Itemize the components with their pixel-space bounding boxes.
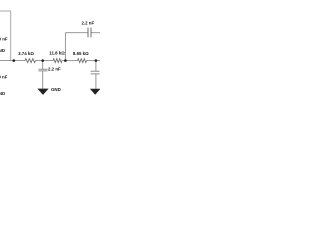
svg-text:0 nF: 0 nF xyxy=(0,75,8,80)
svg-text:ND: ND xyxy=(0,48,5,53)
svg-text:8.65 kΩ: 8.65 kΩ xyxy=(73,51,89,56)
svg-text:2.2 nF: 2.2 nF xyxy=(48,67,61,72)
svg-text:3.74 kΩ: 3.74 kΩ xyxy=(18,51,34,56)
svg-text:11.8 kΩ: 11.8 kΩ xyxy=(49,51,65,56)
svg-text:ND: ND xyxy=(0,91,5,96)
svg-text:GND: GND xyxy=(51,87,61,92)
svg-text:0 nF: 0 nF xyxy=(0,37,8,42)
svg-text:2.2 nF: 2.2 nF xyxy=(81,20,94,25)
